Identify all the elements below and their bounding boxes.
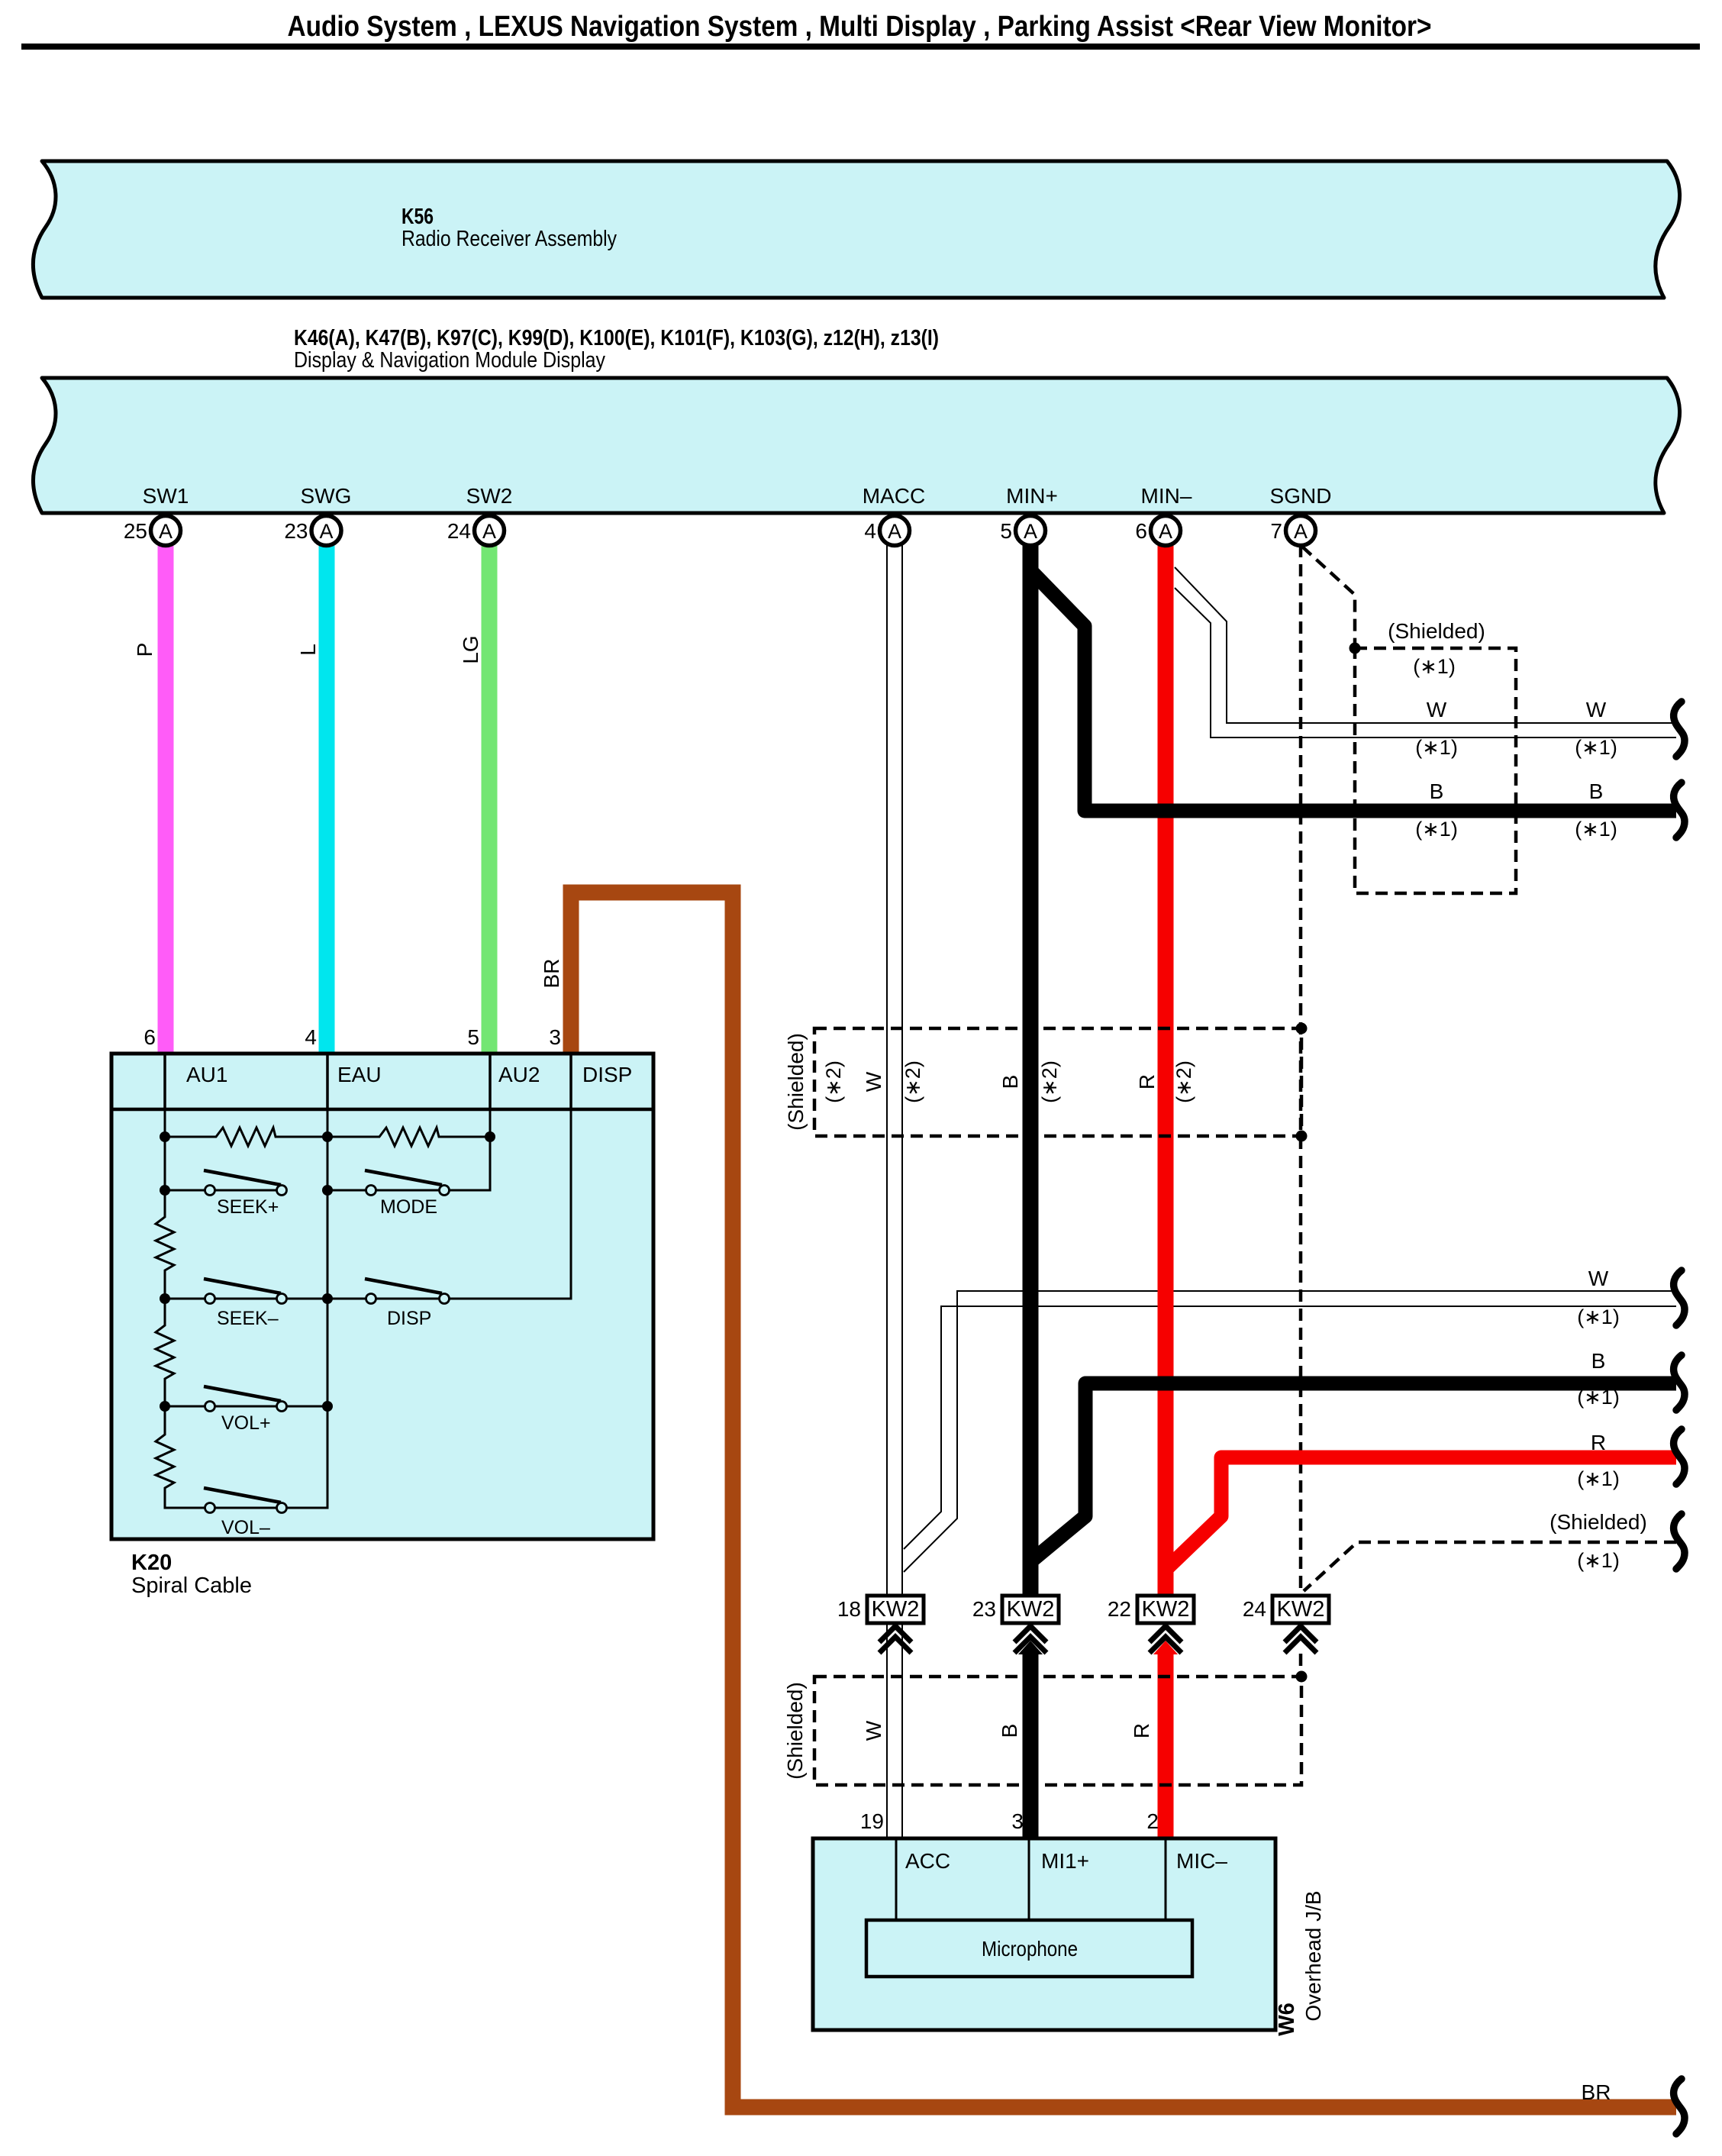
svg-text:(Shielded): (Shielded) xyxy=(783,1682,807,1780)
svg-text:EAU: EAU xyxy=(337,1063,382,1086)
svg-text:A: A xyxy=(482,520,496,543)
svg-text:24: 24 xyxy=(1243,1597,1266,1621)
connector KW2 22 box xyxy=(1137,1596,1194,1623)
svg-text:5: 5 xyxy=(467,1025,479,1049)
svg-text:3: 3 xyxy=(549,1025,561,1049)
svg-text:6: 6 xyxy=(143,1025,156,1049)
svg-text:SWG: SWG xyxy=(301,484,352,508)
break squiggle R xyxy=(1674,1429,1685,1484)
svg-text:SEEK–: SEEK– xyxy=(217,1308,279,1329)
svg-text:23: 23 xyxy=(972,1597,996,1621)
wire B branch MIN+ to right edge xyxy=(1030,570,1676,811)
svg-text:W: W xyxy=(1427,698,1447,721)
svg-text:(∗2): (∗2) xyxy=(1038,1060,1061,1103)
wire L (cyan) SWG to K20 pin 4 xyxy=(319,544,335,1054)
svg-text:4: 4 xyxy=(864,519,876,543)
svg-text:(∗1): (∗1) xyxy=(1577,1549,1620,1572)
svg-text:2: 2 xyxy=(1146,1809,1159,1833)
svg-text:(∗1): (∗1) xyxy=(1577,1386,1620,1409)
shield box 3 (dashed) xyxy=(814,1677,1301,1785)
svg-text:25: 25 xyxy=(124,519,147,543)
switch VOL+ row wires xyxy=(165,1406,327,1408)
K20 header divider EAU xyxy=(326,1054,329,1109)
K20 header separator xyxy=(111,1108,653,1112)
svg-text:KW2: KW2 xyxy=(1007,1597,1055,1622)
svg-text:A: A xyxy=(1024,520,1037,543)
K20 header divider AU1 xyxy=(163,1054,166,1109)
svg-text:W: W xyxy=(862,1720,885,1741)
svg-text:(∗2): (∗2) xyxy=(901,1060,924,1103)
svg-text:K56: K56 xyxy=(401,205,434,229)
wire AU2 column drop to MODE xyxy=(450,1109,491,1190)
title rule xyxy=(21,44,1700,50)
svg-text:Audio System , LEXUS Navigatio: Audio System , LEXUS Navigation System ,… xyxy=(288,11,1432,43)
svg-text:3: 3 xyxy=(1011,1809,1024,1833)
pin 25 A on band xyxy=(124,516,181,546)
svg-text:B: B xyxy=(1591,1349,1606,1373)
svg-text:(Shielded): (Shielded) xyxy=(1549,1510,1647,1534)
svg-text:VOL–: VOL– xyxy=(221,1517,270,1538)
chevrons KW2 22 xyxy=(1150,1626,1182,1653)
wire R arrow below KW2 22 xyxy=(1153,1641,1178,1654)
microphone cell divider MIC- xyxy=(1165,1838,1167,1920)
svg-text:VOL+: VOL+ xyxy=(221,1412,271,1434)
svg-text:(∗2): (∗2) xyxy=(1172,1060,1195,1103)
wire B branch lower right xyxy=(1032,1383,1676,1561)
svg-text:MIN–: MIN– xyxy=(1141,484,1192,508)
pin 24 A on band xyxy=(447,516,505,546)
svg-text:(∗1): (∗1) xyxy=(1577,1306,1620,1328)
svg-text:LG: LG xyxy=(459,635,482,663)
svg-text:SW1: SW1 xyxy=(143,484,189,508)
svg-text:(∗1): (∗1) xyxy=(1415,736,1458,759)
svg-text:SW2: SW2 xyxy=(466,484,513,508)
switch VOL- blade xyxy=(204,1488,281,1502)
svg-text:(∗1): (∗1) xyxy=(1577,1467,1620,1490)
junction dots K20 xyxy=(160,1131,495,1412)
svg-text:SGND: SGND xyxy=(1270,484,1332,508)
connector KW2 23 box xyxy=(1002,1596,1059,1623)
wire BR (brown) K20 DISP pin 3 to right edge xyxy=(571,892,1676,2107)
junction dot shield box 2 top xyxy=(1296,1023,1308,1034)
svg-text:22: 22 xyxy=(1108,1597,1131,1621)
switch SEEK- row wires xyxy=(165,1298,571,1300)
svg-text:B: B xyxy=(1430,779,1444,803)
component K56 Radio Receiver Assembly band xyxy=(33,161,1679,298)
switch SEEK+ blade xyxy=(204,1170,281,1185)
microphone cell divider MI1+ xyxy=(1028,1838,1030,1920)
svg-text:SEEK+: SEEK+ xyxy=(217,1196,279,1218)
svg-text:Microphone: Microphone xyxy=(982,1937,1078,1961)
junction dot shield box 2 bottom xyxy=(1296,1131,1308,1142)
svg-text:R: R xyxy=(1130,1723,1153,1738)
resistor row wire with two resistors xyxy=(165,1128,490,1146)
pin 6 A on band xyxy=(1135,516,1180,546)
microphone cell divider ACC xyxy=(895,1838,898,1920)
svg-text:A: A xyxy=(319,520,333,543)
svg-text:(Shielded): (Shielded) xyxy=(784,1033,808,1131)
svg-text:BR: BR xyxy=(1582,2080,1611,2104)
svg-text:KW2: KW2 xyxy=(872,1597,920,1622)
wire R (red) MIN- to KW2 22 xyxy=(1158,545,1174,1596)
wire dashed below KW2 24 xyxy=(1299,1654,1303,1677)
chevrons KW2 23 xyxy=(1014,1626,1046,1653)
svg-text:18: 18 xyxy=(837,1597,861,1621)
switch SEEK+ row wires xyxy=(165,1189,440,1192)
switch VOL+ blade xyxy=(204,1386,281,1401)
svg-text:B: B xyxy=(1589,779,1604,803)
svg-text:R: R xyxy=(1135,1074,1159,1089)
svg-text:MODE: MODE xyxy=(380,1196,437,1218)
connector KW2 18 box xyxy=(867,1596,924,1623)
pin 23 A on band xyxy=(284,516,341,546)
break squiggle B2 xyxy=(1674,1355,1685,1410)
svg-text:7: 7 xyxy=(1270,519,1282,543)
svg-text:(∗1): (∗1) xyxy=(1413,655,1456,678)
component K20 Spiral Cable box xyxy=(111,1054,653,1539)
svg-text:B: B xyxy=(998,1075,1022,1089)
wire shielded dashed lower right xyxy=(1304,1542,1676,1591)
switch contact terminals xyxy=(205,1186,450,1513)
svg-text:DISP: DISP xyxy=(387,1308,431,1329)
svg-text:5: 5 xyxy=(1000,519,1012,543)
svg-text:W: W xyxy=(1588,1267,1609,1290)
svg-text:W6: W6 xyxy=(1275,2003,1299,2036)
svg-text:B: B xyxy=(998,1724,1021,1738)
svg-text:Radio Receiver Assembly: Radio Receiver Assembly xyxy=(401,227,617,251)
svg-text:Spiral Cable: Spiral Cable xyxy=(131,1573,252,1598)
break squiggle shielded xyxy=(1674,1514,1685,1569)
svg-text:KW2: KW2 xyxy=(1277,1597,1325,1622)
svg-text:P: P xyxy=(133,643,156,657)
wire MIN+ (black) to KW2 23 xyxy=(1023,545,1039,1596)
shield box 2 (dashed) xyxy=(814,1028,1301,1136)
break squiggle BR xyxy=(1674,2079,1685,2134)
break squiggle W1 xyxy=(1674,702,1685,757)
K20 header divider AU2 xyxy=(489,1054,492,1109)
svg-text:23: 23 xyxy=(284,519,308,543)
svg-text:A: A xyxy=(159,520,173,543)
switch MODE blade xyxy=(365,1170,442,1185)
wire B arrow below KW2 23 xyxy=(1018,1641,1043,1654)
wire SGND branch to shield box (dashed) xyxy=(1302,547,1355,648)
wire DISP column drop to DISP switch xyxy=(450,1109,572,1299)
svg-text:(∗1): (∗1) xyxy=(1575,736,1617,759)
svg-text:19: 19 xyxy=(860,1809,884,1833)
svg-text:A: A xyxy=(1294,520,1308,543)
pin 7 A on band xyxy=(1270,516,1315,546)
wire R KW2 22 to microphone MIC- xyxy=(1158,1652,1174,1838)
svg-text:AU2: AU2 xyxy=(498,1063,540,1086)
svg-text:24: 24 xyxy=(447,519,471,543)
svg-text:MIC–: MIC– xyxy=(1176,1849,1227,1873)
svg-text:4: 4 xyxy=(305,1025,317,1049)
svg-text:(Shielded): (Shielded) xyxy=(1388,619,1485,643)
junction dot shield box 3 xyxy=(1296,1671,1308,1683)
svg-text:(∗1): (∗1) xyxy=(1575,818,1617,841)
break squiggle W2 xyxy=(1674,1270,1685,1325)
chevrons KW2 18 xyxy=(879,1626,911,1653)
pin 4 A on band xyxy=(864,516,909,546)
svg-text:(∗2): (∗2) xyxy=(822,1060,845,1103)
break squiggle B1 xyxy=(1674,783,1685,838)
wire P (magenta) SW1 to K20 pin 6 xyxy=(158,544,174,1054)
switch DISP blade xyxy=(365,1279,442,1293)
chevrons KW2 24 xyxy=(1285,1626,1317,1653)
svg-text:Display & Navigation Module Di: Display & Navigation Module Display xyxy=(294,348,605,373)
svg-text:KW2: KW2 xyxy=(1142,1597,1190,1622)
svg-text:DISP: DISP xyxy=(582,1063,632,1086)
microphone inner box xyxy=(866,1920,1192,1977)
wire AU1 bus with resistors xyxy=(156,1109,205,1508)
svg-text:W: W xyxy=(862,1071,885,1092)
junction dot shield box 1 xyxy=(1350,643,1361,654)
svg-text:K20: K20 xyxy=(131,1551,172,1575)
wire SGND shielded (dashed) pin 7 to KW2 24 xyxy=(1299,545,1303,1596)
svg-text:6: 6 xyxy=(1135,519,1147,543)
switch SEEK- blade xyxy=(204,1279,281,1293)
svg-text:K46(A), K47(B), K97(C), K99(D): K46(A), K47(B), K97(C), K99(D), K100(E),… xyxy=(294,326,939,350)
wire W white pair lower right to KW2 18 xyxy=(904,1291,1676,1572)
wire LG (green) SW2 to K20 pin 5 xyxy=(482,544,498,1054)
wire R branch lower right xyxy=(1163,1457,1676,1572)
svg-text:W: W xyxy=(1586,698,1607,721)
svg-text:A: A xyxy=(1159,520,1172,543)
shield box 1 (dashed) xyxy=(1355,648,1516,893)
wire EAU column xyxy=(287,1109,328,1508)
svg-text:(∗1): (∗1) xyxy=(1415,818,1458,841)
wire W white pair branch from MIN- to right edge xyxy=(1175,567,1676,737)
svg-text:BR: BR xyxy=(540,959,563,989)
component W6 Overhead J/B microphone box xyxy=(813,1838,1275,2030)
svg-text:MI1+: MI1+ xyxy=(1041,1849,1089,1873)
svg-text:AU1: AU1 xyxy=(186,1063,227,1086)
svg-text:MACC: MACC xyxy=(863,484,925,508)
wire MACC white pair pin 4 to microphone ACC xyxy=(887,545,902,1838)
svg-text:Overhead J/B: Overhead J/B xyxy=(1301,1890,1325,2021)
svg-text:R: R xyxy=(1591,1431,1606,1454)
svg-text:MIN+: MIN+ xyxy=(1006,484,1058,508)
switch VOL- row wires xyxy=(165,1507,327,1509)
K20 header divider DISP xyxy=(569,1054,572,1109)
pin 5 A on band xyxy=(1000,516,1045,546)
connector KW2 24 box xyxy=(1272,1596,1329,1623)
svg-text:ACC: ACC xyxy=(905,1849,950,1873)
wire B KW2 23 to microphone MI1+ xyxy=(1023,1652,1039,1838)
component Display & Navigation Module Display band xyxy=(33,378,1679,513)
svg-text:L: L xyxy=(296,644,320,656)
svg-text:A: A xyxy=(888,520,901,543)
